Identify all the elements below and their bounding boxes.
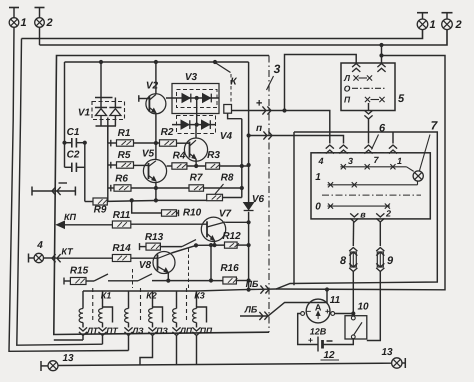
lamp 13 left [41,353,74,371]
wire pin 2 down to fuse 9 [379,222,381,246]
svg-text:К1: К1 [101,291,112,301]
block5 top connectors [352,64,386,72]
svg-text:V3: V3 [185,72,198,83]
svg-text:R8: R8 [221,173,234,184]
svg-text:4: 4 [317,156,323,166]
wire R5 to V5 base [134,164,149,166]
relay К1 left winding [79,291,83,328]
switch 10 contacts [351,316,362,339]
wire block7 pin1 drop from rectangle top [392,132,394,144]
zener V1b [109,107,121,115]
svg-text:V6: V6 [252,194,265,205]
wire ЛБ output [240,288,329,316]
svg-text:R14: R14 [112,243,131,254]
svg-text:12: 12 [323,350,335,361]
connector arrows ПП [192,326,213,336]
label К2 [146,291,157,301]
svg-text:R12: R12 [222,231,241,242]
block7 pin 2 [376,209,391,223]
contact after R13 [160,240,196,247]
connector » ПБ [246,279,269,294]
lamp 1 (rear left turn lamp) with terminal bar [417,13,436,31]
block7 dash-dot row [322,194,421,196]
wire fuse 9 down to switch 10 [367,272,381,341]
lamp 2 (front right turn lamp) with terminal bar [35,8,53,30]
wire V4 collector up to lower diode row [195,125,197,139]
wire bottom bus to lamp 13 right [58,363,392,365]
svg-text:R4: R4 [173,151,186,162]
svg-text:8: 8 [340,255,347,267]
wire V8 collector diagonal to node [172,244,198,253]
tick bar R1 lead [108,140,117,147]
wire: V2 collector up [155,62,157,94]
wire switch 10 bottom to battery [323,339,354,345]
lamp 2 (rear right turn lamp) with terminal bar [442,13,462,31]
wire: V2 base lead with tick bar [139,95,150,102]
svg-text:1: 1 [429,19,435,31]
connector arrows ПЗ [148,326,168,336]
relay unit box (block 3) solid edges [54,56,269,335]
tick bar R5 lead [108,162,117,169]
block5 bottom connector [364,103,372,144]
wire R2 to V4 base [177,142,191,144]
relay coil K [224,105,232,114]
wire R4 leads [167,164,206,167]
svg-text:3: 3 [348,156,353,166]
svg-text:R5: R5 [118,150,131,161]
wire R3 right to vertical [220,164,249,167]
block7 indicator lamp [413,171,423,181]
svg-text:ЛП: ЛП [179,326,193,336]
transistor V7 [201,209,231,242]
wire: coil K bottom lead to vertical [228,113,242,119]
diode V6 [244,194,265,211]
resistor R2 [160,127,177,146]
wire ПЗ staircase to bottom bus [140,336,153,365]
wire: middle vertical (coil to R8 row) [240,119,243,198]
resistor R3 [206,150,221,169]
svg-text:R1: R1 [118,128,131,139]
block7 row 0 [315,202,390,213]
capacitor C2 [65,150,85,173]
wire R1 to R2 [134,141,160,144]
wire: right cap bus down to R9 [84,143,86,202]
diode V3.2 [203,94,212,103]
resistor R4 [172,151,187,170]
svg-text:V5: V5 [142,149,155,160]
wire КП row [57,224,113,226]
svg-text:0: 0 [315,202,321,213]
block7 dashed pin row [317,152,402,154]
label 7 with leader to lamp [420,119,439,171]
contact K1 on R15 row [86,274,108,281]
wire between contacts [108,280,138,282]
svg-text:R13: R13 [145,232,164,243]
diode V3.4 [202,120,211,129]
transistor V2 [146,81,166,114]
connector arrows ЛЗ [124,326,144,336]
connector arrow КП at relay edge [57,212,77,228]
svg-text:+: + [308,335,313,345]
resistor R15 [70,266,89,285]
label К1 [101,291,112,301]
resistor R12 [222,231,241,248]
relay К3 right winding [193,291,207,328]
svg-text:в: в [360,210,366,220]
wire lamp2 down to bus B [39,27,41,45]
svg-text:2: 2 [45,17,52,29]
wire: long vertical from inner bus down (V6 branch) [247,62,250,291]
connector » on + wire [256,98,286,115]
svg-text:К2: К2 [146,291,157,301]
wire ЛП down [176,336,178,365]
mechanical link dashed to coil K [230,74,232,105]
svg-text:13: 13 [381,347,393,358]
contact K2 on row [138,274,152,281]
junction dots on V6 vertical [247,134,250,282]
resistor R10 [162,208,202,219]
svg-text:ПТ: ПТ [106,326,118,336]
resistor R9 [93,198,108,216]
block5 row Л [343,73,372,83]
svg-text:ЛТ: ЛТ [86,326,99,336]
label 6 with leader [372,123,386,150]
fuse 8 with connectors [340,248,357,272]
svg-text:Л: Л [343,73,350,83]
wire: left vertical from bus A [17,39,103,346]
svg-text:ПП: ПП [200,326,213,336]
wire V4 emitter down to R3 row [195,160,197,167]
svg-text:3: 3 [274,62,281,76]
block7 pin 1 [389,145,402,166]
transistor V4 [184,138,207,161]
lamp 13 right [381,347,405,368]
wire R9 leads [85,201,93,203]
svg-text:7: 7 [431,119,439,133]
wire: link between diode rows [195,96,198,126]
wire ПТ to bus [102,336,104,345]
wire D: from + line up and over to block 5 [285,55,357,111]
svg-text:V4: V4 [220,131,233,142]
wire: V2 emitter down through row to V5 collector [155,114,157,160]
relay К2 core [140,288,142,322]
svg-text:ПБ: ПБ [246,279,259,289]
wire B: second top bus to lamps 2 [40,30,448,45]
svg-text:4: 4 [36,240,43,251]
svg-text:V1: V1 [78,108,91,119]
svg-text:1: 1 [315,172,321,183]
wire: left cap bus up to inner top bus [64,62,66,167]
svg-text:V7: V7 [219,209,232,220]
wire: inner top bus [65,61,249,63]
wire: V1 top lead up to inner bus [100,62,102,98]
svg-text:2: 2 [385,209,391,219]
resistor R6 [114,174,131,192]
svg-text:R6: R6 [115,174,128,185]
wire ammeter to switch 10 [335,312,355,315]
wire: V1 bottom lead down to resistor bus [107,126,109,143]
block7 pin 7 [364,145,379,165]
svg-text:R11: R11 [113,210,131,221]
wire R7 right lead [204,187,242,189]
zener V1a [95,107,107,115]
wire C: to right edge loop [276,56,445,290]
wire R12 right to vertical [237,244,249,246]
wire: R9 row to V5 emitter [107,200,156,203]
block7 row 1 lower contacts [328,181,418,187]
block7 pin 3 [339,145,353,166]
ammeter terminals [301,312,335,316]
svg-text:п: п [256,123,262,134]
wire rectangle left edge around block 7 [293,132,295,285]
wire R8 row [156,198,242,201]
svg-text:7: 7 [373,155,379,165]
junction dots on inner top bus [99,60,216,63]
svg-text:C2: C2 [67,150,80,161]
svg-text:R9: R9 [94,205,107,216]
svg-text:О: О [344,84,351,94]
V3 upper diode row wire [166,97,219,99]
svg-text:К3: К3 [194,291,205,301]
svg-text:+: + [325,307,330,316]
wire R14 to V8 base [131,257,158,259]
wire V7 collector right to vertical [225,221,250,224]
V3 lower diode row wire [172,124,216,126]
relay contact K [215,63,237,88]
relay К1 right winding [99,291,113,328]
wire R11 to V7 base [131,223,207,225]
resistor R14 [112,243,131,262]
wire V5 emitter down [154,182,157,202]
block5 row П [344,95,385,105]
relay К2 right winding [149,291,163,328]
wire КТ row [57,257,112,259]
lamp 1 (front left turn lamp) with terminal bar [9,8,27,30]
svg-text:R10: R10 [183,208,202,219]
relay К1 core [92,288,94,322]
V1 internal wires [95,98,116,127]
svg-text:10: 10 [357,302,369,313]
R15 left bar [64,278,70,285]
wire П output to pin 3 [249,136,344,144]
svg-text:V2: V2 [146,81,159,92]
block5 row О [344,84,386,94]
relay К3 left winding [173,291,177,328]
resistor R7 [189,173,204,192]
wire + output to pin 4 [232,111,330,144]
svg-text:ПЗ: ПЗ [156,326,168,336]
coil group top bus [83,290,197,292]
wire ЛТ to bus [54,336,83,341]
svg-text:КП: КП [64,212,77,222]
svg-text:12В: 12В [310,327,327,337]
block 7 box [311,153,430,219]
wire loop2 lower [0,0,1,1]
svg-text:+: + [256,98,263,110]
wire row to R16 [152,280,223,282]
svg-text:R2: R2 [161,127,174,138]
minus supply terminal [32,183,75,196]
svg-text:6: 6 [379,123,386,135]
svg-text:R16: R16 [220,263,239,274]
svg-text:13: 13 [62,353,74,364]
connector » on П wire [256,123,272,140]
wire ЛЗ to bus [128,336,130,351]
connector «« КТ [44,247,75,263]
svg-text:V8: V8 [139,260,152,271]
transistor V5 [142,149,167,183]
resistor R1 [117,128,134,146]
relay К2 left winding [125,291,129,328]
diode pair V1 dashed box [78,102,125,120]
connector arrows ПТ [98,326,118,336]
wire from lamp 1 down left edge [9,27,129,351]
block7 pin в [350,210,366,223]
transistor V8 [139,252,175,274]
block7 row 1 upper contacts [315,164,413,183]
mechanical link dashes to contacts [133,249,189,289]
svg-text:R7: R7 [190,173,203,184]
svg-text:C1: C1 [67,127,80,138]
tick bar R6 lead [108,185,114,192]
R10 lead from R8 row [130,199,178,216]
svg-text:КТ: КТ [61,247,74,257]
connector arrows ЛП [172,326,192,336]
svg-text:1: 1 [397,156,402,166]
ammeter 11 [306,295,340,323]
capacitor C1 [65,127,85,148]
wire fuse 8 down to ammeter node [352,272,354,314]
connector » ЛБ [244,305,268,321]
wire V8 emitter down [167,273,170,282]
svg-text:ЛБ: ЛБ [244,305,258,315]
resistor R5 [117,150,134,168]
wire A: top bus to lamps 1 [22,30,423,39]
wire V7 emitter down to R12 row [213,241,216,247]
V3 lower dashed box (V4 diodes) [177,116,233,143]
wire: resistor bus vertical [107,118,109,202]
svg-text:2: 2 [454,19,461,31]
svg-text:5: 5 [398,93,405,105]
svg-text:П: П [344,95,351,105]
wire battery to ammeter minus [298,314,318,345]
battery 12 plates [308,327,339,362]
junction dots cap bus [63,141,87,144]
wire R16 right to vertical [236,280,248,282]
wire ПП down [196,336,198,365]
switch 10 box [345,302,369,340]
connector arrows ЛТ [79,326,99,336]
wire from V7 emitter node down [209,244,212,283]
wire R6 right to R7 [131,187,189,189]
label К3 [194,291,205,301]
svg-text:11: 11 [330,295,341,306]
resistor R13 [145,232,164,250]
resistor R11 [112,210,130,228]
switch block 5 box [341,63,405,111]
svg-text:−: − [306,307,311,316]
svg-text:R15: R15 [70,266,89,277]
wire R12 row [196,244,225,246]
lamp 4 (indicator) [29,240,44,263]
R13 left bar [140,243,147,250]
resistor R8 with leader label [207,173,234,201]
diode V3.3 [181,120,190,129]
relay unit boundary dash-dot right edge [268,56,270,333]
svg-text:9: 9 [387,255,394,267]
fuse 9 with connectors [376,248,394,272]
diode V3.1 [182,94,191,103]
block7 pin 4 [317,145,333,166]
wire pin в down to fuse 8 [352,222,354,246]
junction on bus B [380,43,383,46]
svg-text:R3: R3 [207,150,220,161]
V3 upper dashed box [177,90,218,108]
wire ПБ output [197,132,438,291]
resistor R16 [220,263,239,284]
relay К3 core [186,288,188,322]
label 3 (relay unit) with leader [267,62,281,90]
svg-text:ЛЗ: ЛЗ [131,326,144,336]
diode block V3 outer box [172,72,219,114]
wire from bus B down to switch block 5 [380,45,383,64]
svg-text:1: 1 [20,17,26,29]
